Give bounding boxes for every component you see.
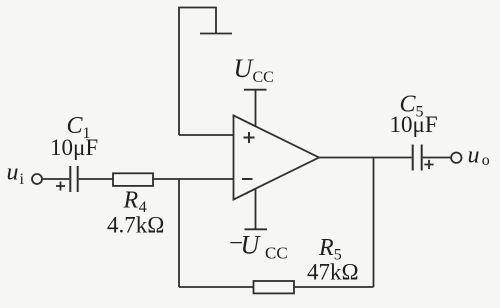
svg-text:4.7kΩ: 4.7kΩ (107, 212, 164, 237)
svg-text:o: o (482, 152, 490, 169)
svg-text:10μF: 10μF (50, 135, 98, 160)
svg-text:R: R (123, 187, 139, 213)
svg-text:R: R (318, 235, 334, 261)
svg-text:u: u (7, 159, 19, 185)
svg-text:47kΩ: 47kΩ (307, 259, 359, 284)
svg-text:u: u (468, 142, 480, 168)
svg-text:i: i (20, 171, 25, 188)
svg-text:10μF: 10μF (390, 112, 438, 137)
svg-text:U: U (241, 230, 262, 259)
svg-text:U: U (234, 54, 255, 83)
svg-text:CC: CC (253, 69, 274, 86)
svg-text:CC: CC (265, 243, 288, 262)
